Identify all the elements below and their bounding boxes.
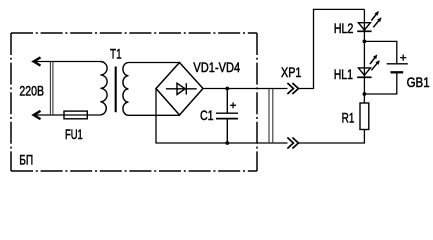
- wire battery branch top: [364, 41, 396, 63]
- node C1 top: [225, 87, 229, 91]
- LED HL1: [357, 68, 371, 77]
- svg-text:FU1: FU1: [65, 126, 83, 142]
- plus GB1: [400, 55, 406, 61]
- wire LED chain vertical: [363, 9, 365, 103]
- diode symbol inside bridge: [166, 83, 197, 94]
- battery GB1: [387, 64, 408, 73]
- svg-text:R1: R1: [342, 109, 355, 125]
- svg-text:HL2: HL2: [334, 20, 354, 36]
- capacitor C1: [216, 89, 238, 144]
- resistor R1: [360, 103, 369, 130]
- wire bottom rail after connector: [299, 130, 364, 144]
- cable twin-line XP1: [269, 89, 273, 144]
- cable twin-line 220V: [50, 62, 53, 116]
- wire top rail after connector: [299, 9, 364, 88]
- wire secondary bottom: [129, 114, 180, 116]
- enclosure БП dashed box: [11, 33, 257, 171]
- svg-text:T1: T1: [110, 46, 122, 62]
- wire DC plus top rail: [203, 88, 288, 90]
- LED HL2 arrows: [371, 11, 381, 27]
- transformer T1 core: [115, 67, 117, 113]
- svg-text:XP1: XP1: [281, 64, 302, 80]
- svg-text:C1: C1: [200, 107, 214, 123]
- svg-text:HL1: HL1: [334, 66, 353, 82]
- svg-text:БП: БП: [19, 151, 33, 167]
- 220V input arrow top: [34, 57, 41, 65]
- bridge rectifier VD1-VD4 diamond: [156, 63, 203, 116]
- connector XP1 chevrons top: [287, 83, 298, 94]
- wire primary top: [35, 61, 100, 63]
- node HL2 cathode junction: [363, 40, 367, 44]
- wire bottom rail to connector: [227, 142, 287, 144]
- plus C1: [230, 102, 236, 108]
- wire secondary top: [129, 62, 180, 64]
- transformer T1 secondary winding: [123, 63, 129, 116]
- svg-text:GB1: GB1: [407, 74, 430, 90]
- wire primary bottom: [35, 114, 100, 116]
- node HL1 cathode junction: [363, 92, 367, 96]
- transformer T1 primary winding: [100, 62, 107, 116]
- connector XP1 chevrons bottom: [287, 138, 298, 149]
- LED HL2: [357, 23, 371, 32]
- svg-text:VD1-VD4: VD1-VD4: [193, 59, 240, 75]
- 220V input arrow bottom: [34, 111, 41, 119]
- LED HL1 arrows: [370, 54, 380, 70]
- wire DC minus left drop: [156, 89, 227, 144]
- svg-text:220В: 220В: [19, 82, 44, 98]
- fuse FU1: [64, 111, 87, 119]
- wire battery branch bottom: [364, 72, 396, 94]
- node C1 bottom: [225, 141, 229, 145]
